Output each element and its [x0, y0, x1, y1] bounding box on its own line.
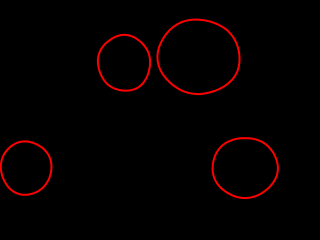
red circle bottom-left [1, 141, 52, 194]
red circle top-right [157, 20, 239, 95]
red circle top-left [98, 35, 150, 91]
red circle bottom-right [213, 138, 278, 198]
